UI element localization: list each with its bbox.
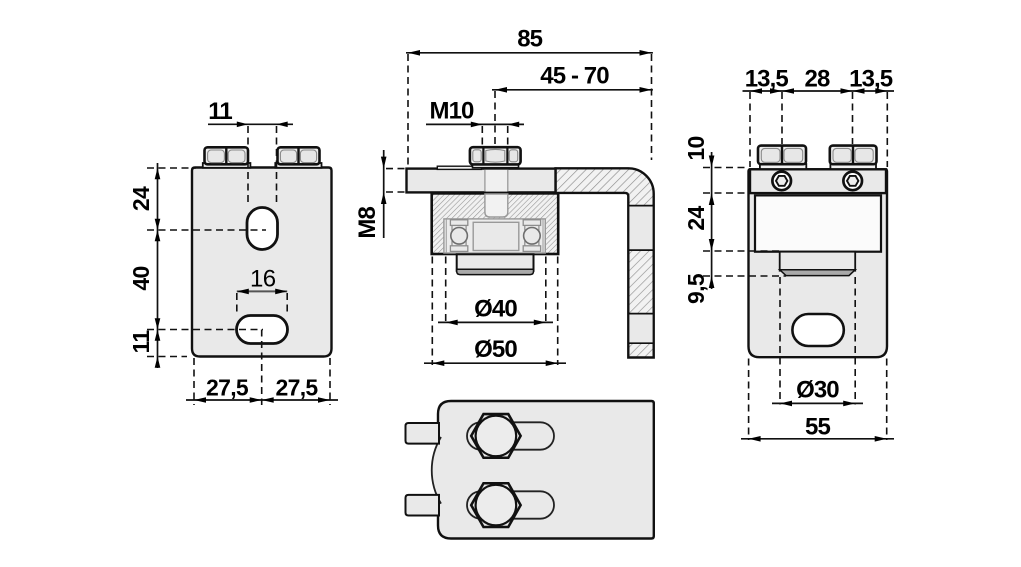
dim 85	[406, 52, 653, 54]
clamp body white face	[755, 195, 881, 251]
svg-text:85: 85	[517, 26, 542, 53]
hex nut M10 side view	[470, 147, 521, 164]
left chain dimension 24/40/11	[147, 163, 266, 368]
bolt shank through bar	[486, 170, 508, 192]
svg-text:11: 11	[208, 98, 232, 125]
svg-text:9,5: 9,5	[683, 273, 709, 304]
svg-text:M10: M10	[430, 98, 475, 125]
shim plate on bar	[437, 166, 481, 169]
bearing inner ring	[473, 222, 519, 250]
bolt left head	[758, 146, 806, 165]
bolt left head	[205, 147, 249, 164]
bolt left washer	[760, 164, 806, 169]
bearing races right	[523, 220, 540, 226]
dim 27,5 27,5 bottom	[186, 330, 338, 406]
bearing races left	[450, 220, 467, 226]
bearing cavity	[444, 219, 545, 253]
left chain dimension 10/24/9,5	[711, 152, 713, 289]
bearing ball right	[524, 228, 541, 245]
svg-text:27,5: 27,5	[276, 375, 319, 401]
slot top view lower	[467, 491, 554, 518]
lower slot hole	[237, 316, 288, 344]
bar tab lower	[406, 495, 440, 516]
leg plain segment 1	[629, 206, 652, 249]
svg-text:Ø30: Ø30	[796, 376, 839, 403]
upper oblong hole	[247, 208, 278, 250]
svg-text:45 - 70: 45 - 70	[540, 63, 609, 90]
svg-text:24: 24	[128, 186, 154, 211]
svg-text:M8: M8	[354, 206, 381, 238]
dim Ø50	[424, 362, 566, 364]
RIGHT VIEW GROUP	[683, 66, 894, 442]
slot hole rear	[792, 314, 843, 346]
svg-text:Ø50: Ø50	[474, 336, 517, 363]
BOTTOM VIEW GROUP	[406, 401, 654, 539]
svg-text:13,5: 13,5	[745, 66, 789, 93]
plate top view	[438, 401, 654, 539]
svg-text:28: 28	[805, 66, 830, 93]
bolt right head	[278, 147, 320, 164]
bearing circumference crescent	[432, 437, 441, 504]
dim M10	[426, 123, 524, 125]
dim 13,5 28 13,5	[743, 90, 895, 92]
plate front view	[192, 168, 332, 357]
dim 11 top	[208, 124, 293, 206]
spacer bushing below bearing	[457, 254, 534, 270]
svg-text:10: 10	[683, 136, 709, 160]
dim 16	[237, 290, 287, 292]
bolt left washer	[203, 163, 251, 168]
slot top view upper	[467, 422, 554, 449]
dim Ø40	[438, 321, 553, 323]
bearing ball left	[451, 228, 468, 245]
dim M8	[383, 150, 385, 238]
washer under nut	[473, 164, 519, 168]
plate rear view	[749, 169, 888, 357]
bolt right washer	[830, 164, 876, 169]
bolt right washer	[275, 163, 321, 168]
hex bolt top view upper	[471, 414, 520, 458]
svg-text:27,5: 27,5	[206, 375, 249, 401]
LEFT VIEW GROUP	[128, 98, 338, 405]
step dark band	[780, 270, 856, 276]
bolt right head	[830, 146, 877, 165]
L-bracket angle (hatched section)	[556, 168, 654, 357]
clamp bar rear view	[750, 169, 886, 193]
svg-text:40: 40	[128, 266, 154, 290]
dim 55	[741, 438, 894, 440]
hex bolt top view lower	[471, 483, 520, 527]
svg-text:16: 16	[250, 265, 276, 292]
leg plain segment 2	[629, 314, 652, 342]
dim 45 - 70	[492, 89, 653, 91]
socket screw right	[843, 172, 862, 191]
socket screw left	[772, 172, 791, 191]
bar tab upper	[406, 423, 440, 444]
clamp bar side view	[407, 169, 556, 193]
bolt shank in housing	[485, 194, 508, 217]
svg-text:13,5: 13,5	[849, 66, 893, 93]
svg-text:11: 11	[128, 330, 154, 354]
dim Ø30	[772, 402, 863, 404]
svg-text:Ø40: Ø40	[474, 295, 517, 322]
svg-text:24: 24	[683, 206, 709, 231]
cavity inner walls	[445, 220, 447, 253]
lower step	[780, 252, 856, 271]
MIDDLE VIEW GROUP	[354, 26, 654, 366]
spacer dark bottom band	[457, 269, 534, 274]
bearing housing (hatched)	[432, 193, 559, 254]
svg-text:55: 55	[805, 413, 830, 440]
leg segment divider lines	[628, 206, 653, 344]
